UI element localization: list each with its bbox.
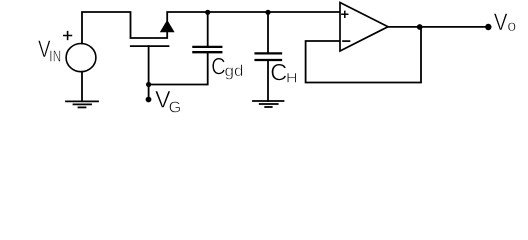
- svg-text:G: G: [169, 100, 182, 117]
- svg-text:C: C: [270, 60, 287, 87]
- svg-text:V: V: [494, 9, 508, 36]
- svg-text:IN: IN: [49, 49, 61, 66]
- svg-text:C: C: [211, 54, 225, 81]
- svg-text:o: o: [507, 18, 516, 35]
- svg-text:H: H: [286, 69, 298, 85]
- svg-text:gd: gd: [225, 63, 244, 80]
